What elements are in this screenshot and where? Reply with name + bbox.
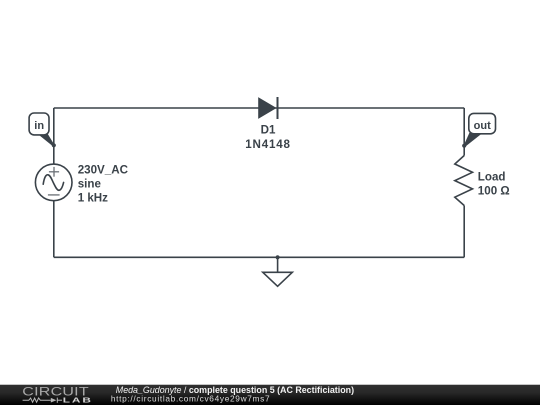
svg-text:Load: Load [478, 170, 506, 183]
label Load value [478, 170, 510, 197]
svg-text:100 Ω: 100 Ω [478, 184, 510, 197]
plus sign [49, 167, 59, 177]
svg-text:in: in [34, 120, 44, 132]
svg-text:D1: D1 [261, 124, 276, 137]
resistor Load [455, 156, 473, 206]
footer bar [0, 385, 540, 405]
svg-text:out: out [474, 120, 491, 132]
flag out [464, 113, 496, 146]
svg-text:1N4148: 1N4148 [245, 138, 290, 151]
minus sign [48, 194, 60, 196]
CircuitLab logo glyph (resistor + diode) [23, 398, 62, 403]
wire right vertical upper [463, 108, 465, 156]
diode D1 [259, 97, 278, 119]
CircuitLab logo wordmark CIRCUIT [22, 385, 89, 399]
svg-text:1 kHz: 1 kHz [78, 192, 108, 205]
node ground junction dot [276, 255, 280, 259]
voltage source V1 [35, 164, 72, 201]
svg-text:LAB: LAB [63, 396, 93, 404]
sine glyph [43, 175, 63, 191]
svg-text:sine: sine [78, 178, 102, 191]
wire bottom rail [54, 256, 464, 258]
ground [263, 257, 293, 286]
node out (junction dot) [462, 144, 466, 148]
wire right vertical lower [463, 206, 465, 258]
node in (junction dot) [52, 143, 56, 147]
flag in [29, 113, 54, 146]
CircuitLab logo LAB [63, 396, 93, 404]
label D1 [245, 124, 290, 151]
wire left vertical [53, 108, 55, 257]
label V1 value [78, 164, 129, 205]
svg-text:http://circuitlab.com/cv64ye29: http://circuitlab.com/cv64ye29w7ms7 [111, 393, 270, 403]
svg-text:230V_AC: 230V_AC [78, 164, 129, 177]
wire top rail [54, 107, 464, 109]
